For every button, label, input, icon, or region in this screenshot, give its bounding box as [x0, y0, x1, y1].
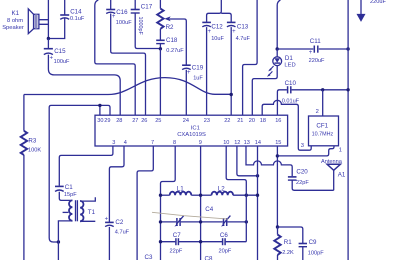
- svg-text:R1: R1: [284, 239, 292, 246]
- C20 label: [296, 168, 309, 186]
- L1 label: [177, 185, 184, 192]
- svg-text:29: 29: [104, 118, 110, 124]
- capacitor C20: [288, 177, 334, 190]
- svg-text:R3: R3: [28, 137, 36, 144]
- svg-text:Antenna: Antenna: [321, 159, 343, 165]
- svg-text:220uF: 220uF: [370, 0, 386, 5]
- capacitor C19: [182, 65, 191, 115]
- svg-text:2.2K: 2.2K: [282, 250, 294, 256]
- svg-text:10.7MHz: 10.7MHz: [312, 132, 334, 138]
- T1 label: [88, 209, 96, 216]
- capacitor C18: [156, 40, 165, 49]
- node A junction dot: [47, 37, 50, 40]
- wire pin 8 to tank left rail: [161, 146, 176, 260]
- wire pin 16 to C10: [277, 90, 287, 115]
- svg-text:20pF: 20pF: [219, 249, 232, 255]
- IC top pin number labels: [97, 118, 281, 124]
- wire pin 14 rail down: [257, 146, 259, 260]
- wire pin 15 rail down: [276, 146, 278, 227]
- svg-text:26: 26: [141, 118, 147, 124]
- svg-text:C2: C2: [115, 219, 123, 226]
- variable capacitor C4 section a: [161, 216, 247, 227]
- C16 label: [112, 9, 132, 26]
- svg-text:24: 24: [183, 118, 189, 124]
- C8 label (clipped): [205, 256, 213, 260]
- junction dots tank top row: [159, 194, 162, 197]
- svg-text:0.01uF: 0.01uF: [282, 98, 300, 104]
- svg-text:+: +: [105, 217, 109, 223]
- svg-text:220uF: 220uF: [309, 58, 325, 64]
- wire C12/C13 feeder from top: [207, 0, 232, 22]
- svg-text:14: 14: [255, 140, 261, 146]
- svg-text:C14: C14: [70, 9, 82, 16]
- R3 label: [28, 137, 41, 153]
- junction dot pin30: [98, 104, 101, 107]
- svg-text:15pF: 15pF: [64, 192, 77, 198]
- C6 label: [219, 232, 232, 254]
- junction dot D1/C11: [276, 47, 279, 50]
- C4 label: [205, 206, 213, 213]
- svg-text:12: 12: [234, 140, 240, 146]
- svg-text:+: +: [112, 14, 116, 20]
- svg-text:C6: C6: [220, 232, 228, 239]
- supply arrow: [357, 0, 366, 22]
- wire pin 3 to C1: [59, 146, 113, 186]
- svg-text:K1: K1: [12, 10, 20, 17]
- C1 label: [64, 184, 77, 198]
- svg-text:4.7uF: 4.7uF: [115, 230, 130, 236]
- capacitor C16: [106, 0, 145, 115]
- inductor L2: [201, 192, 258, 196]
- junction dot C10/right rail: [346, 88, 349, 91]
- C12 label: [208, 24, 225, 42]
- svg-text:0.1uF: 0.1uF: [70, 16, 85, 22]
- svg-text:4.7uF: 4.7uF: [236, 36, 251, 42]
- svg-text:A1: A1: [338, 171, 346, 178]
- svg-text:LED: LED: [284, 63, 295, 69]
- speaker K1: [28, 9, 39, 34]
- svg-text:D1: D1: [285, 55, 293, 62]
- L2 label: [218, 185, 225, 192]
- wire tank right rail: [245, 195, 247, 242]
- ceramic filter CF1: [309, 116, 339, 146]
- svg-text:C12: C12: [211, 24, 223, 31]
- C13 label: [232, 24, 250, 42]
- 220uF label top right (clipped): [370, 0, 386, 5]
- D1 labels: [284, 55, 295, 69]
- svg-text:20: 20: [249, 118, 255, 124]
- svg-text:1000pF: 1000pF: [137, 17, 143, 36]
- IC bottom pin number labels: [112, 140, 281, 146]
- svg-text:25: 25: [155, 118, 161, 124]
- junction dot pin14/L2: [256, 194, 259, 197]
- svg-text:8 ohm: 8 ohm: [7, 18, 23, 24]
- wire pin 18 to CF1 pin 3 (hops over pin16 wire): [262, 100, 311, 150]
- wire R3 arc to C13 node (hops over pin wires): [24, 78, 231, 95]
- wire pin 12 to pin 14 rail: [237, 146, 258, 176]
- svg-text:L1: L1: [177, 185, 184, 192]
- svg-text:C13: C13: [237, 24, 249, 31]
- C18 label: [166, 37, 184, 54]
- svg-text:3: 3: [301, 143, 304, 149]
- junction dot pin15/CF1: [276, 154, 279, 157]
- svg-text:10uF: 10uF: [211, 36, 224, 42]
- C3 label (clipped): [145, 254, 153, 260]
- svg-text:7: 7: [151, 140, 154, 146]
- svg-text:27: 27: [132, 118, 138, 124]
- junction dot T1 bottom: [57, 240, 60, 243]
- IC U1 CXA1019S box: [95, 115, 288, 146]
- capacitor C13: [227, 22, 236, 115]
- capacitor C10: [288, 86, 349, 93]
- C10 label: [282, 80, 300, 104]
- capacitor C11: [277, 46, 348, 53]
- R1 label: [282, 239, 294, 256]
- svg-text:100K: 100K: [28, 147, 41, 153]
- capacitor C9: [278, 227, 308, 260]
- power rail right: [347, 0, 349, 260]
- svg-text:100uF: 100uF: [116, 20, 132, 26]
- node C18/C17 junction dot, wire down to pin 25: [159, 47, 162, 50]
- svg-text:C8: C8: [205, 256, 213, 260]
- C14 label: [70, 9, 85, 22]
- svg-text:C4: C4: [205, 206, 213, 213]
- junction dot C11/right rail: [346, 47, 349, 50]
- resistor R1: [274, 227, 280, 260]
- svg-text:100uF: 100uF: [54, 59, 70, 65]
- wire pin 13 to C20 (hops over pin14 and pin15 wires): [246, 146, 292, 176]
- wire speaker terminals to node: [39, 0, 49, 39]
- svg-text:+: +: [187, 70, 191, 76]
- wire pin27 net from top edge: [95, 0, 135, 115]
- svg-text:23: 23: [204, 118, 210, 124]
- C11 label: [309, 38, 325, 64]
- svg-text:0.27uF: 0.27uF: [166, 48, 184, 54]
- svg-text:1: 1: [339, 148, 342, 154]
- capacitor C15: [44, 39, 120, 116]
- svg-text:C20: C20: [296, 168, 308, 175]
- capacitor C7: [161, 238, 247, 245]
- wire pin 10 to L2 right: [226, 146, 246, 195]
- C7 label: [170, 232, 183, 254]
- inductor L1: [161, 192, 201, 196]
- svg-text:R2: R2: [166, 24, 174, 31]
- junction dot C13/pin22/R3-arc: [230, 93, 233, 96]
- C4 gang line: [152, 212, 228, 219]
- svg-text:C19: C19: [192, 64, 204, 71]
- variable capacitor C4 section b: [221, 216, 230, 227]
- junction dot C10/CF1 pin2: [321, 88, 324, 91]
- svg-text:1uF: 1uF: [193, 75, 203, 81]
- CF1 pin number labels: [301, 109, 342, 154]
- junction dots trimmer row: [159, 220, 162, 223]
- svg-text:Speaker: Speaker: [2, 25, 24, 31]
- wire pin 7 down: [137, 146, 153, 260]
- capacitor C12: [202, 22, 211, 115]
- resistor R3: [21, 95, 27, 260]
- IC1 labels: [177, 125, 206, 137]
- antenna A1: [327, 164, 340, 190]
- svg-text:C15: C15: [54, 48, 66, 55]
- CF1 labels: [312, 122, 334, 137]
- C19 label: [187, 64, 204, 81]
- svg-text:T1: T1: [88, 209, 96, 216]
- svg-text:15: 15: [275, 140, 281, 146]
- C9 label: [308, 239, 324, 256]
- svg-text:2: 2: [316, 109, 319, 115]
- svg-text:+: +: [232, 29, 236, 35]
- wire pin 21 net from top: [243, 0, 258, 115]
- C17 label: [137, 4, 153, 36]
- capacitor C6: [223, 238, 226, 245]
- antenna labels: [321, 159, 346, 178]
- wire pin 9 down (oscillator rail): [200, 146, 202, 260]
- wire CF1 pin 2: [322, 90, 324, 116]
- svg-text:28: 28: [116, 118, 122, 124]
- LED D1: [252, 49, 281, 115]
- svg-text:13: 13: [244, 140, 250, 146]
- svg-text:C7: C7: [173, 232, 181, 239]
- svg-text:C10: C10: [285, 80, 297, 87]
- capacitor C17: [131, 0, 161, 49]
- svg-text:100pF: 100pF: [308, 250, 324, 256]
- capacitor C2: [105, 222, 114, 260]
- svg-text:C9: C9: [309, 239, 317, 246]
- R2 label: [166, 24, 174, 31]
- svg-text:4: 4: [124, 140, 127, 146]
- svg-text:30: 30: [97, 118, 103, 124]
- svg-text:10: 10: [223, 140, 229, 146]
- svg-text:C16: C16: [116, 9, 128, 16]
- svg-text:3: 3: [112, 140, 115, 146]
- wire pin 4 to C2: [109, 146, 124, 222]
- svg-text:CXA1019S: CXA1019S: [177, 132, 206, 138]
- svg-text:C11: C11: [310, 38, 321, 45]
- svg-text:+: +: [309, 50, 313, 56]
- C15 label: [50, 48, 71, 65]
- svg-text:18: 18: [260, 118, 266, 124]
- junction dot pin12/14: [256, 174, 259, 177]
- junction dot R1/C9: [276, 225, 279, 228]
- capacitor C1: [55, 186, 72, 200]
- junction dots C7/C6 row: [159, 240, 162, 243]
- capacitor C14: [48, 0, 69, 39]
- svg-text:+: +: [50, 56, 54, 62]
- resistor R2 (with wiper arrow): [157, 0, 186, 65]
- svg-text:22: 22: [224, 118, 230, 124]
- svg-text:22pF: 22pF: [170, 249, 183, 255]
- svg-text:22pF: 22pF: [296, 180, 309, 186]
- svg-text:8: 8: [173, 140, 176, 146]
- svg-text:21: 21: [237, 118, 243, 124]
- wire pins 30/29 net: [49, 105, 110, 242]
- svg-text:9: 9: [199, 140, 202, 146]
- svg-text:IC1: IC1: [191, 125, 200, 131]
- svg-text:CF1: CF1: [316, 122, 328, 129]
- svg-text:+: +: [208, 29, 212, 35]
- svg-text:C3: C3: [145, 254, 153, 260]
- svg-text:16: 16: [275, 118, 281, 124]
- transformer T1: [69, 200, 83, 221]
- svg-text:C17: C17: [141, 4, 153, 11]
- C2 label: [105, 217, 130, 236]
- wire pin15 to CF1 pin 1: [277, 146, 334, 156]
- K1 label: [2, 10, 24, 31]
- svg-text:C18: C18: [166, 37, 178, 44]
- svg-text:C1: C1: [65, 184, 73, 191]
- svg-text:L2: L2: [218, 185, 225, 192]
- wire D1 net from top: [277, 0, 280, 49]
